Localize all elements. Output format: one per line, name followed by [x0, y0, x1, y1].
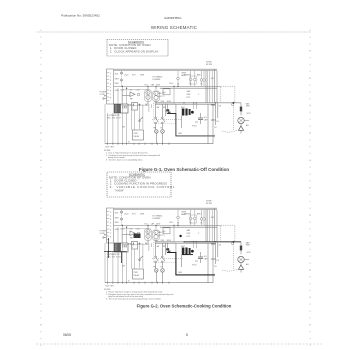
diode D1 [238, 124, 243, 134]
svg-text:NOTES:: NOTES: [104, 289, 111, 291]
svg-text:4: 4 [110, 84, 111, 86]
svg-text:H.V.D: H.V.D [192, 265, 197, 267]
svg-text:8: 8 [110, 237, 111, 239]
wire: magnetron lead to step [166, 251, 168, 253]
wire: mid bus [114, 224, 221, 226]
svg-text:6: 6 [110, 230, 111, 232]
HV capacitor C1 [198, 113, 208, 124]
svg-text:FORMER: FORMER [153, 218, 161, 220]
humidity sensor (circle with cross) [238, 256, 249, 262]
wire: mid verticals [132, 103, 197, 130]
svg-text:DPM: DPM [140, 213, 144, 215]
relay contact RY1-a [133, 243, 147, 261]
svg-text:1: 1 [132, 108, 133, 110]
svg-text:CN-F GRY: CN-F GRY [105, 286, 115, 288]
fan motor FM triangle [122, 92, 140, 101]
control unit (dashed box) [221, 86, 235, 103]
mid bus junction dots [147, 86, 178, 87]
svg-text:2: 2 [110, 77, 111, 79]
svg-text:Figure G-2. Oven Schematic-Coo: Figure G-2. Oven Schematic-Cooking Condi… [137, 304, 232, 309]
svg-text:MGT TC: MGT TC [158, 96, 166, 98]
relay RY2 (power relay) [133, 269, 144, 279]
svg-text:8: 8 [186, 333, 188, 337]
junction dot at dashed drop [233, 241, 235, 243]
oven lamp drops [177, 210, 213, 242]
magnetron MG (filament terminals) [182, 109, 194, 116]
svg-text:CN-D: CN-D [124, 74, 129, 76]
svg-text:H.V.: H.V. [145, 223, 149, 225]
secondary interlock switch SW2 [161, 243, 165, 268]
wire: HV rail [207, 104, 209, 136]
bottom rail junction ticks [108, 282, 169, 284]
svg-text:Publication No: 5995523452: Publication No: 5995523452 [61, 14, 100, 18]
svg-text:SURGE: SURGE [184, 213, 191, 215]
svg-text:RY3: RY3 [132, 74, 135, 76]
svg-text:H.V.D: H.V.D [192, 126, 197, 128]
scatter labels mid zone [158, 217, 215, 238]
labels above transformer [145, 83, 162, 86]
svg-text:CAV TC: CAV TC [158, 92, 165, 95]
wire: HV rail [207, 243, 209, 275]
wire: top rail L1 [114, 207, 217, 209]
dashed sense line [152, 119, 182, 121]
motor assembly enclosure box [122, 90, 148, 106]
header rule (dashed) [37, 31, 311, 33]
svg-text:HL: HL [201, 84, 203, 86]
wire: lower bus [155, 241, 241, 243]
svg-text:TT: TT [160, 267, 162, 269]
misc component labels [122, 212, 203, 282]
svg-text:TT: TT [160, 128, 162, 130]
humidity sensor (circle with cross) [238, 117, 249, 123]
bold energized path (cooking) [104, 234, 215, 275]
wire: magnetron lead to step [166, 112, 168, 114]
svg-text:1: 1 [132, 247, 133, 249]
lower bus junction dots [183, 241, 216, 242]
svg-text:FILTER: FILTER [206, 64, 213, 66]
svg-text:GRN: GRN [115, 229, 120, 231]
dashed lead to sensor [222, 269, 240, 272]
terminal strip TB1 [107, 208, 114, 243]
svg-text:H.V.: H.V. [145, 84, 149, 86]
svg-text:3: 3 [110, 219, 111, 221]
svg-text:5: 5 [110, 87, 111, 89]
wire: right rail drop 2 [214, 208, 216, 242]
fan motor FM [155, 269, 159, 283]
labels under mid bus [120, 89, 140, 91]
label: H.V. transformer [153, 76, 163, 81]
svg-text:RELAY: RELAY [134, 274, 141, 277]
svg-text:GND: GND [178, 272, 183, 274]
notes box 1 (off condition) [107, 40, 168, 57]
labels under rail [124, 213, 144, 215]
relay contact block (dark) [166, 109, 170, 113]
svg-text:SEC 12V 3.15V: SEC 12V 3.15V [107, 257, 121, 259]
label: sensor [246, 103, 252, 128]
monitor switch wires [165, 243, 167, 255]
svg-text:3: 3 [110, 80, 111, 82]
svg-text:CN-C: CN-C [169, 83, 174, 85]
label: oven lamp [181, 73, 187, 77]
lamp pair enclosure [190, 215, 196, 223]
svg-text:CORD: CORD [100, 94, 106, 96]
labels under rail [124, 74, 144, 76]
fan motor FM [155, 130, 159, 144]
connector CN-A (dashed) [121, 210, 123, 226]
labels under lower bus [129, 244, 149, 246]
wire: lower-left verticals [105, 243, 127, 283]
connector CN-B [231, 103, 233, 105]
wire: magnetron drop [181, 116, 183, 129]
wire: lower bus [155, 102, 241, 104]
noise filter label [206, 62, 213, 66]
low voltage transformer LVT [114, 104, 128, 113]
svg-text:OL: OL [177, 84, 179, 86]
primary interlock switch SW1 [155, 104, 159, 129]
svg-text:"HIGH": "HIGH" [115, 188, 125, 192]
turntable motor TTM [161, 130, 165, 144]
misc component labels [122, 73, 203, 143]
thermal cutout TCO [240, 242, 242, 255]
FIGURE G-2 SCHEMATIC (cooking condition) [100, 201, 252, 301]
wire: bottom risers [208, 136, 213, 144]
wire colour labels [115, 74, 120, 93]
right perforation dot column [309, 30, 310, 347]
wire: mid bus 2 [160, 226, 217, 228]
svg-text:CN-F GRY: CN-F GRY [105, 147, 115, 149]
svg-text:SW2: SW2 [187, 233, 191, 235]
wire: feed drops to LVT [118, 86, 127, 104]
interlock switch group (dashed) [154, 103, 176, 123]
svg-text:SW2: SW2 [187, 94, 191, 96]
svg-text:7: 7 [110, 233, 111, 235]
svg-text:RELAY: RELAY [134, 135, 141, 138]
wire: mid bus 2 [160, 87, 217, 89]
wire: right rail lower extension [211, 103, 222, 136]
transformer T1 primary [145, 86, 151, 104]
svg-text:EI30MH55G: EI30MH55G [165, 16, 183, 20]
wire: bottom rail [105, 282, 213, 284]
svg-text:Figure G-1. Oven Schematic-Off: Figure G-1. Oven Schematic-Off Condition [139, 167, 230, 172]
svg-text:HL: HL [201, 223, 203, 225]
wire: top rail N [114, 208, 217, 210]
wire: top rail N [114, 69, 217, 71]
line filter choke [163, 225, 174, 241]
monitor switch wires [165, 104, 167, 116]
transformer T1 secondary [153, 225, 159, 243]
svg-text:OL: OL [177, 223, 179, 225]
wire: feed drops to LVT [118, 225, 127, 243]
mid bus junction dots [147, 225, 178, 226]
svg-text:3. This circuit shows you do: 3. This circuit shows you do not have pr… [106, 298, 162, 301]
svg-text:2. CLOCK APPEARS ON DISPLAY: 2. CLOCK APPEARS ON DISPLAY [110, 49, 159, 53]
diode D1 [238, 263, 243, 273]
svg-text:PWR: PWR [134, 133, 139, 135]
svg-text:RY3: RY3 [132, 213, 135, 215]
wire: HV return stepped path (bold) [167, 253, 215, 275]
svg-text:8: 8 [110, 98, 111, 100]
label: power cord (arrow to strip) [100, 231, 107, 239]
svg-text:DPM: DPM [140, 74, 144, 76]
svg-text:SEC 12V 3.15V: SEC 12V 3.15V [107, 118, 121, 120]
wire: lower bus 2 [155, 103, 215, 105]
noise filter label [206, 201, 213, 205]
svg-text:RY2: RY2 [187, 97, 190, 99]
svg-text:1: 1 [110, 212, 111, 214]
svg-text:GRN: GRN [115, 90, 120, 92]
thermal cutout TCO [240, 103, 242, 116]
notes text under figure [104, 150, 160, 162]
relay RY2 (power relay) [133, 130, 144, 140]
label: LVT [107, 253, 121, 258]
transformer T1 primary [145, 225, 151, 243]
labels under mid bus [120, 228, 140, 230]
turntable motor TTM [161, 269, 165, 283]
wire: mid verticals [132, 242, 197, 269]
junction dot at dashed drop [233, 102, 235, 104]
svg-text:CORD: CORD [100, 233, 106, 235]
motor assembly enclosure box [122, 229, 148, 245]
svg-text:RY2: RY2 [187, 236, 190, 238]
wire: right rail lower extension [211, 242, 222, 275]
svg-text:3. Test other doors in one co: 3. Test other doors in one compatibility… [106, 159, 143, 162]
svg-text:CL: CL [190, 223, 192, 225]
wire: lower bus bold segment [184, 241, 241, 243]
connector CN-A (dashed) [121, 71, 123, 87]
relay contact block (dark) [166, 248, 170, 252]
secondary interlock switch SW2 [161, 104, 165, 129]
svg-text:GND: GND [178, 133, 183, 135]
HV diode D2 [192, 261, 198, 267]
wire colour labels [115, 213, 120, 232]
left perforation dot column [40, 30, 41, 347]
label: sensor [246, 242, 252, 267]
wire: right rail drop 3 [205, 210, 207, 242]
label: oven lamp [181, 212, 187, 216]
switch labels [154, 101, 172, 129]
wire: lower bus 2 [155, 242, 215, 244]
line filter choke [163, 86, 174, 102]
oven lamp drops [177, 71, 213, 103]
labels above transformer [145, 222, 162, 225]
svg-text:CL: CL [190, 84, 192, 86]
svg-text:CN-D: CN-D [124, 213, 129, 215]
svg-text:SURGE: SURGE [184, 74, 191, 76]
svg-text:MGT TC: MGT TC [158, 235, 166, 237]
svg-text:WIRING SCHEMATIC: WIRING SCHEMATIC [151, 25, 197, 30]
terminal strip TB1 [107, 69, 114, 104]
transformer T1 secondary [153, 86, 159, 104]
scatter labels mid zone [158, 78, 215, 99]
footer rule (dashed) [36, 343, 322, 345]
wire: top rail L1 [114, 68, 217, 70]
svg-text:PWR: PWR [134, 272, 139, 274]
magnetron MG (filament terminals) [182, 248, 194, 255]
lower bus junction dots [183, 102, 216, 103]
wire: HV return stepped path (bold) [167, 114, 215, 136]
svg-text:1: 1 [110, 73, 111, 75]
HV capacitor C1 [198, 252, 208, 263]
low voltage transformer LVT [114, 243, 128, 252]
wire: bottom rail [105, 143, 213, 145]
svg-text:NOTES:: NOTES: [104, 150, 111, 152]
wire: right rail drop 3 [205, 71, 207, 103]
label: H.V. transformer [153, 215, 163, 220]
svg-text:FORMER: FORMER [153, 79, 161, 81]
label: power cord (arrow to strip) [100, 92, 107, 100]
label: LVT [107, 114, 121, 119]
svg-text:CN-C: CN-C [169, 222, 174, 224]
FIGURE G-1 SCHEMATIC (off condition) [100, 62, 252, 162]
svg-text:MON: MON [167, 101, 172, 103]
svg-text:CAV TC: CAV TC [158, 231, 165, 234]
dashed drop from control unit [233, 103, 235, 130]
lamp pair enclosure [190, 76, 196, 84]
svg-text:4: 4 [110, 223, 111, 225]
wire: right rail drop [216, 71, 218, 103]
wire: right rail drop [216, 210, 218, 242]
relay RY1 [132, 103, 138, 111]
wire: lower-left verticals [105, 104, 127, 144]
wire: right rail drop 2 [214, 69, 216, 103]
control unit (dashed box) [221, 225, 235, 242]
svg-text:5: 5 [110, 226, 111, 228]
svg-text:2: 2 [110, 216, 111, 218]
bottom rail junction ticks [108, 143, 169, 145]
dashed sense line [152, 258, 182, 260]
dashed drop from control unit [233, 242, 235, 269]
primary interlock switch SW1 [155, 243, 159, 268]
connector CN-B [231, 242, 233, 244]
relay contact RY1-a [133, 104, 147, 122]
fan motor FM triangle [122, 231, 140, 240]
labels under lower bus [129, 105, 149, 107]
wire: bottom risers [208, 275, 213, 283]
svg-text:7: 7 [110, 94, 111, 96]
svg-text:06/08: 06/08 [63, 333, 71, 337]
svg-text:FILTER: FILTER [206, 203, 213, 205]
relay RY1 [132, 242, 138, 250]
wire: magnetron drop [181, 255, 183, 268]
switch labels [154, 240, 172, 268]
notes text under figure [104, 289, 174, 301]
svg-text:MON: MON [167, 240, 172, 242]
HV diode D2 [192, 122, 198, 128]
interlock switch group (dashed) [154, 242, 176, 262]
notes box 2 (cooking condition) [107, 172, 175, 197]
wire: mid bus [114, 85, 221, 87]
svg-text:6: 6 [110, 91, 111, 93]
dashed lead to sensor [222, 130, 240, 133]
